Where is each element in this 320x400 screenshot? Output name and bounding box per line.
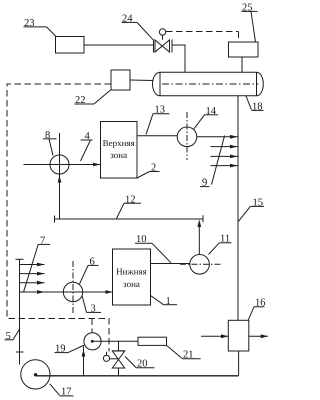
label 9 [200, 178, 210, 189]
label 11 [209, 234, 232, 255]
svg-text:Верхняя: Верхняя [103, 138, 135, 148]
wire 10 box1 to fan11 [151, 263, 191, 265]
pump 19 [84, 333, 101, 350]
valve 20 [103, 341, 124, 375]
wire pump19 to heater21 [93, 340, 139, 342]
box 25 [229, 42, 259, 57]
heater 21 [138, 337, 167, 345]
label 4 [81, 131, 93, 161]
wire fan11 up to line12 [197, 220, 201, 255]
box U2 Верхняя зона [101, 122, 138, 179]
label 5 [5, 330, 20, 342]
label 16 [248, 298, 265, 320]
label 25 [242, 3, 258, 43]
label 6 [80, 256, 99, 284]
box 23 [56, 37, 85, 54]
box U1 Нижняя зона [113, 249, 151, 305]
svg-text:1: 1 [166, 296, 171, 307]
wire 3 manifold to box1 [20, 290, 113, 294]
outlet arrow box16 [249, 334, 268, 338]
air arrows 9 [211, 136, 238, 185]
fan 14 [177, 112, 197, 160]
dashed control loop left [7, 84, 111, 352]
mixer circle 8 [24, 133, 101, 219]
label 13 [146, 105, 170, 135]
wire box25 to drum [241, 57, 243, 72]
drum 18 [153, 72, 264, 96]
wire box16 down to bottom [238, 351, 240, 376]
fan 6 [63, 261, 82, 313]
box 16 [228, 320, 249, 351]
label 12 [117, 194, 142, 218]
fan 11 [180, 254, 222, 274]
wire fan14 to riser15 [197, 135, 238, 139]
label 23 [24, 18, 57, 37]
riser 15 [237, 96, 239, 320]
label 18 [246, 96, 264, 113]
label 15 [239, 197, 265, 221]
recycle line 12 [55, 215, 204, 222]
bottom return wire [36, 375, 239, 377]
label 21 [167, 345, 201, 360]
label 8 [43, 130, 57, 156]
wire 13 box2 to fan14 [137, 135, 177, 137]
wire valve24 to drum [172, 45, 185, 72]
label 3 [82, 296, 101, 315]
air manifold 7 [16, 244, 45, 364]
inlet arrow box16 [201, 334, 228, 338]
label 17 [50, 384, 74, 398]
label 1 [151, 296, 178, 308]
pipe 5 tick [16, 351, 24, 353]
label 10 [135, 234, 171, 263]
valve 24 [154, 29, 173, 53]
riser to pump 19 [82, 347, 86, 376]
box 22 [111, 70, 130, 90]
svg-text:зона: зона [110, 150, 127, 160]
label 20 [125, 357, 154, 370]
label 2 [137, 163, 160, 179]
label 19 [55, 344, 85, 355]
svg-text:Нижняя: Нижняя [116, 267, 147, 277]
wire box23 to valve24 [84, 44, 154, 46]
label 22 [75, 90, 111, 106]
control line valve24 to box25 (dashed) [166, 32, 239, 43]
wire box22 to drum [130, 79, 154, 82]
label 7 [38, 235, 50, 246]
svg-text:зона: зона [123, 279, 140, 289]
label 14 [194, 106, 219, 130]
fan 17 [21, 360, 50, 389]
label 24 [122, 14, 154, 40]
